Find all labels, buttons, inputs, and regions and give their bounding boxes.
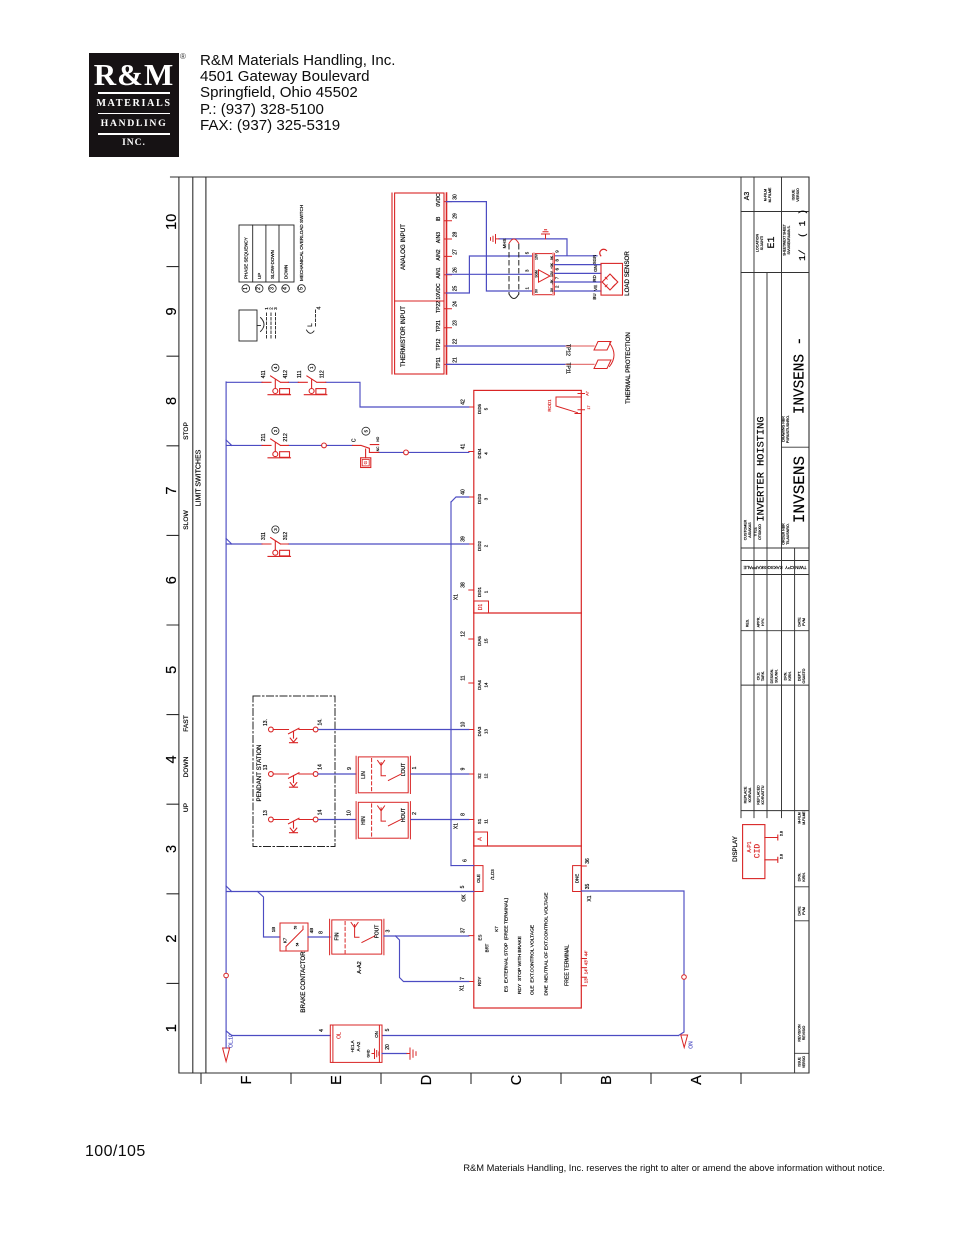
svg-text:39: 39 — [461, 536, 467, 542]
svg-text:CUSTOMER: CUSTOMER — [744, 519, 748, 540]
svg-text:3: 3 — [164, 845, 180, 853]
svg-text:3: 3 — [386, 929, 392, 932]
svg-text:NC: NC — [376, 446, 380, 451]
svg-text:1B: 1B — [271, 927, 276, 932]
transformer symbol — [239, 310, 276, 341]
svg-text:S1: S1 — [477, 818, 482, 824]
limit switch 111/112 — [298, 376, 327, 395]
svg-text:ORDER NBR: ORDER NBR — [782, 523, 786, 545]
svg-text:112: 112 — [320, 370, 326, 378]
svg-text:A: A — [689, 1075, 705, 1085]
svg-text:+3K: +3K — [550, 262, 554, 269]
relay contact ROD1 — [556, 394, 585, 414]
wire row 42 — [226, 382, 469, 407]
wire supply bus — [226, 382, 232, 1036]
svg-text:13: 13 — [484, 729, 489, 734]
svg-text:REPLACE: REPLACE — [744, 786, 748, 803]
svg-text:TP11: TP11 — [565, 363, 571, 375]
svg-text:10: 10 — [461, 722, 467, 728]
junction node — [404, 450, 409, 455]
svg-text:9: 9 — [347, 767, 353, 770]
svg-text:OSASTO: OSASTO — [802, 668, 806, 683]
svg-text:3: 3 — [273, 528, 278, 531]
svg-text:AIN1: AIN1 — [436, 267, 442, 278]
overload switch contact 5 — [353, 445, 379, 468]
svg-text:X1: X1 — [460, 985, 466, 991]
pendant button 13-14 row 10 — [269, 817, 319, 833]
wire row 10 — [318, 729, 469, 731]
svg-text:7: 7 — [555, 276, 560, 279]
svg-text:THERMAL PROTECTION: THERMAL PROTECTION — [625, 332, 632, 404]
svg-text:37: 37 — [461, 928, 467, 934]
svg-text:E1: E1 — [767, 236, 778, 248]
shield terminal symbol — [491, 235, 500, 244]
wire 10VDC to amp pin5 — [447, 256, 533, 293]
svg-text:5: 5 — [363, 429, 368, 432]
svg-text:10: 10 — [347, 810, 353, 816]
row ticks — [201, 1073, 741, 1084]
svg-text:1: 1 — [243, 287, 249, 290]
svg-text:K7: K7 — [494, 926, 499, 932]
analog input box — [392, 193, 447, 374]
svg-text:312: 312 — [283, 532, 289, 541]
wire to LIN — [318, 773, 356, 775]
svg-text:C: C — [352, 438, 358, 442]
column numbers 1-10 — [164, 214, 180, 1033]
svg-text:DID1: DID1 — [477, 586, 482, 597]
svg-text:ROD1: ROD1 — [547, 399, 552, 412]
svg-text:4: 4 — [317, 306, 323, 309]
svg-text:TP21: TP21 — [436, 320, 442, 332]
svg-text:TILAUSNRO.: TILAUSNRO. — [786, 523, 790, 545]
svg-text:DATE: DATE — [798, 617, 802, 627]
svg-text:BRT: BRT — [485, 943, 490, 952]
terminal stubs 21-30 — [444, 202, 452, 365]
svg-text:311: 311 — [261, 532, 267, 540]
svg-text:DRN.: DRN. — [784, 672, 788, 681]
svg-text:1: 1 — [412, 766, 418, 769]
svg-text:3: 3 — [269, 287, 275, 290]
svg-text:M-FILME: M-FILME — [802, 811, 806, 824]
sub box D1 — [474, 601, 489, 613]
limit switch 311/312 — [262, 538, 291, 557]
svg-text:CKD.: CKD. — [757, 672, 761, 681]
svg-text:+E1.A: +E1.A — [350, 1040, 355, 1052]
thermistor TP11 — [594, 360, 611, 369]
svg-text:23: 23 — [453, 320, 459, 326]
svg-text:REPLACED: REPLACED — [757, 785, 761, 805]
svg-text:SIVU/SEURAAVA S.: SIVU/SEURAAVA S. — [787, 225, 791, 254]
marker OL10 — [223, 1048, 230, 1062]
svg-text:DID2: DID2 — [477, 540, 482, 551]
svg-text:42: 42 — [461, 399, 467, 405]
svg-text:ASIAKAS: ASIAKAS — [748, 522, 752, 538]
svg-text:K7: K7 — [283, 937, 288, 943]
svg-text:DNE NEUTRAL OF EXT.CONTROL VO: DNE NEUTRAL OF EXT.CONTROL VOLTAGE — [544, 892, 550, 996]
svg-text:24: 24 — [453, 301, 459, 307]
svg-text:DATE: DATE — [798, 906, 802, 916]
svg-text:1: 1 — [484, 590, 489, 593]
svg-text:G: G — [363, 460, 368, 464]
svg-text:A-A2: A-A2 — [356, 1041, 361, 1051]
wire row 40 — [451, 497, 469, 502]
svg-text:M-FILM: M-FILM — [798, 812, 802, 823]
svg-text:X1: X1 — [454, 823, 460, 829]
svg-text:DID5: DID5 — [477, 403, 482, 414]
svg-text:14: 14 — [318, 764, 324, 770]
svg-text:41: 41 — [461, 444, 467, 450]
svg-text:LIMIT SWITCHES: LIMIT SWITCHES — [196, 449, 203, 506]
svg-text:53: 53 — [294, 926, 298, 930]
svg-text:2: 2 — [412, 812, 418, 815]
svg-text:14': 14' — [584, 968, 589, 974]
svg-text:13': 13' — [584, 977, 589, 983]
svg-text:DID4: DID4 — [477, 448, 482, 459]
svg-text:FREE TERMINAL: FREE TERMINAL — [565, 944, 571, 986]
svg-text:17: 17 — [587, 406, 591, 410]
svg-text:2: 2 — [256, 287, 262, 290]
svg-text:UP: UP — [257, 273, 262, 279]
amplifier SGM — [533, 254, 555, 295]
svg-text:MECHANICAL OVERLOAD SWITCH: MECHANICAL OVERLOAD SWITCH — [299, 205, 304, 281]
svg-text:14.: 14. — [318, 719, 324, 726]
svg-text:13: 13 — [263, 765, 269, 771]
pendant station box — [253, 696, 335, 847]
svg-text:36: 36 — [585, 858, 591, 864]
svg-text:LOCATION: LOCATION — [756, 234, 760, 253]
svg-text:5: 5 — [460, 885, 466, 888]
svg-text:27: 27 — [453, 249, 459, 255]
svg-text:KIRN.: KIRN. — [788, 671, 792, 681]
svg-text:NO: NO — [376, 436, 380, 441]
svg-text:8: 8 — [319, 931, 325, 934]
svg-text:VERSIO: VERSIO — [796, 188, 800, 202]
svg-text:APPR.: APPR. — [757, 617, 761, 628]
svg-text:DRN.: DRN. — [798, 873, 802, 882]
svg-text:A-A2: A-A2 — [357, 961, 363, 973]
svg-text:RES.: RES. — [746, 619, 750, 627]
svg-text:OLE EXT.CONTROL VOLTAGE: OLE EXT.CONTROL VOLTAGE — [530, 924, 536, 995]
wire row 39 — [226, 539, 469, 545]
svg-text:5: 5 — [525, 251, 530, 254]
column ticks — [167, 267, 179, 984]
svg-text:OL: OL — [337, 1032, 343, 1039]
title block grid — [741, 178, 809, 1073]
svg-text:DOWN: DOWN — [283, 265, 288, 279]
svg-text:22: 22 — [453, 339, 459, 345]
svg-text:-3K: -3K — [550, 279, 554, 285]
svg-text:1/ ( 1 ): 1/ ( 1 ) — [797, 209, 808, 261]
svg-text:RD: RD — [592, 275, 597, 281]
svg-text:HYV.: HYV. — [761, 618, 765, 626]
svg-text:ON: ON — [689, 1041, 695, 1049]
svg-text:AIN3: AIN3 — [436, 232, 442, 243]
svg-text:LIN: LIN — [361, 771, 367, 779]
svg-text:38: 38 — [461, 582, 467, 588]
svg-text:DID3: DID3 — [477, 493, 482, 504]
svg-text:4: 4 — [484, 452, 489, 455]
svg-text:SGM: SGM — [534, 270, 538, 278]
svg-text:RDY STOP WITH BRAKE: RDY STOP WITH BRAKE — [517, 935, 523, 994]
wire row 6 — [451, 865, 474, 867]
svg-text:INVSENS: INVSENS — [791, 456, 809, 523]
svg-text:28: 28 — [453, 232, 459, 238]
svg-text:10: 10 — [164, 214, 180, 230]
svg-text:VERSIO: VERSIO — [802, 1055, 806, 1068]
svg-text:PENDANT STATION: PENDANT STATION — [256, 744, 263, 801]
svg-text:SLOW-DOWN: SLOW-DOWN — [270, 250, 275, 279]
pin names — [436, 193, 442, 369]
svg-text:TWIN CPY KAKSOISKAPPALE: TWIN CPY KAKSOISKAPPALE — [743, 565, 806, 570]
svg-text:7: 7 — [164, 487, 180, 495]
svg-text:3: 3 — [484, 497, 489, 500]
svg-text:CID: CID — [753, 844, 762, 859]
svg-text:SGN: SGN — [592, 255, 597, 265]
terminal numbers left — [454, 399, 469, 991]
svg-text:2: 2 — [555, 285, 560, 288]
legend table — [239, 225, 294, 282]
svg-text:REVISION: REVISION — [798, 1024, 802, 1042]
svg-text:4: 4 — [273, 366, 278, 369]
svg-text:2: 2 — [484, 544, 489, 547]
svg-text:5: 5 — [385, 1028, 391, 1031]
svg-text:35: 35 — [585, 884, 591, 890]
svg-text:REVISIO: REVISIO — [802, 1026, 806, 1041]
svg-text:D.B: D.B — [780, 854, 784, 859]
svg-text:9: 9 — [461, 767, 467, 770]
svg-text:29: 29 — [453, 213, 459, 219]
svg-text:ES EXTERNAL STOP (FREE TERMI: ES EXTERNAL STOP (FREE TERMINAL) — [504, 897, 510, 992]
svg-text:20: 20 — [385, 1044, 391, 1050]
svg-text:7: 7 — [460, 977, 466, 980]
svg-text:5: 5 — [484, 407, 489, 410]
svg-text:HOUT: HOUT — [401, 808, 407, 822]
svg-text:PVM: PVM — [802, 618, 806, 626]
svg-text:3: 3 — [273, 307, 278, 310]
svg-text:10VDC: 10VDC — [436, 283, 442, 300]
pin labels inside box — [477, 403, 499, 985]
svg-text:TARK.: TARK. — [761, 671, 765, 681]
legend 5 MECHANICAL OVERLOAD SWITCH — [298, 285, 306, 293]
wire pin 20 to ground — [382, 1053, 407, 1055]
svg-text:BRAKE CONTACTOR: BRAKE CONTACTOR — [300, 951, 307, 1013]
wires amp to load sensor — [555, 265, 602, 291]
svg-text:GND: GND — [366, 1049, 370, 1057]
svg-text:ES: ES — [478, 935, 483, 941]
terminal numbers 21-30 — [453, 194, 459, 363]
svg-text:411: 411 — [261, 370, 267, 378]
svg-text:6: 6 — [164, 576, 180, 584]
wire shield MHS — [499, 239, 597, 256]
svg-text:M-FILM: M-FILM — [764, 189, 768, 201]
svg-text:3: 3 — [525, 269, 530, 272]
svg-text:54: 54 — [296, 943, 300, 947]
svg-text:DIA5: DIA5 — [477, 636, 482, 646]
terminal stubs left edge — [469, 407, 587, 986]
svg-text:11: 11 — [484, 819, 489, 824]
svg-text:26: 26 — [453, 267, 459, 273]
wire bottom row — [232, 1035, 679, 1037]
svg-text:DIA4: DIA4 — [477, 680, 482, 690]
svg-text:C: C — [509, 1075, 525, 1085]
svg-text:5: 5 — [164, 666, 180, 674]
svg-text:1: 1 — [309, 366, 314, 369]
svg-text:TP12: TP12 — [565, 344, 571, 356]
svg-text:KIRN.: KIRN. — [802, 872, 806, 882]
svg-text:8: 8 — [555, 259, 560, 262]
svg-text:211: 211 — [261, 433, 267, 441]
svg-text:212: 212 — [283, 433, 289, 442]
contactor aux K7 — [280, 923, 308, 951]
cell DNE — [573, 866, 582, 892]
svg-text:INVERTER HOISTING: INVERTER HOISTING — [756, 416, 768, 521]
svg-text:M-FILME: M-FILME — [768, 187, 772, 202]
svg-text:STOP: STOP — [183, 421, 190, 439]
wire K7 to FIN — [308, 936, 330, 938]
svg-text:SLOW: SLOW — [183, 510, 190, 530]
svg-text:VE: VE — [593, 285, 598, 291]
svg-text:412: 412 — [283, 370, 289, 379]
svg-text:8: 8 — [461, 813, 467, 816]
svg-text:FOUT: FOUT — [375, 925, 381, 939]
svg-text:5: 5 — [299, 287, 305, 290]
wire TP12 — [447, 345, 567, 347]
wire row DNE — [581, 891, 684, 1036]
svg-text:43': 43' — [584, 959, 589, 965]
svg-text:12: 12 — [484, 773, 489, 778]
svg-text:8: 8 — [164, 397, 180, 405]
svg-text:TP11: TP11 — [436, 357, 442, 369]
wire K7 branch — [258, 892, 281, 938]
svg-text:F: F — [239, 1075, 255, 1084]
svg-text:0VDC: 0VDC — [436, 193, 442, 207]
svg-text:SIJAINTI: SIJAINTI — [760, 236, 764, 250]
svg-text:ISSUE: ISSUE — [798, 1057, 802, 1067]
svg-text:X1: X1 — [454, 594, 460, 600]
wire TP11 — [447, 363, 567, 365]
svg-text:10V: 10V — [534, 253, 538, 260]
svg-text:THERMISTOR INPUT: THERMISTOR INPUT — [400, 306, 407, 367]
svg-text:DISPLAY: DISPLAY — [732, 836, 739, 862]
wire row 41 — [226, 440, 469, 452]
svg-text:BU: BU — [592, 293, 597, 299]
wire 0VDC to amp pin1 — [447, 202, 533, 291]
svg-text:A-P1: A-P1 — [747, 841, 753, 852]
svg-text:30: 30 — [453, 194, 459, 200]
svg-text:OLE: OLE — [476, 874, 481, 883]
svg-text:6: 6 — [463, 859, 469, 862]
svg-text:FAST: FAST — [183, 715, 190, 732]
svg-text:SHEET/NEXT SHEET: SHEET/NEXT SHEET — [783, 224, 787, 256]
svg-text:B: B — [599, 1075, 615, 1085]
thermistor bracket — [610, 343, 615, 367]
row letters A-F — [239, 1075, 705, 1085]
svg-text:ON: ON — [374, 1031, 379, 1038]
inverter unit box — [474, 390, 582, 1008]
svg-text:40: 40 — [461, 489, 467, 495]
svg-text:D1: D1 — [478, 604, 484, 611]
svg-text:4B: 4B — [309, 928, 314, 933]
radio link FIN/FOUT — [330, 919, 384, 955]
svg-text:DRAWING NBR: DRAWING NBR — [782, 416, 786, 442]
wire AIN1 to amp pin3 — [447, 273, 533, 275]
thermistor TP12 — [594, 342, 611, 351]
svg-text:9: 9 — [555, 250, 560, 253]
svg-text:IB: IB — [436, 216, 442, 221]
svg-text:2: 2 — [164, 935, 180, 943]
svg-text:PHASE SEQUENCY: PHASE SEQUENCY — [244, 237, 249, 279]
ground symbol top — [542, 230, 550, 239]
overload relay OL — [330, 1025, 382, 1062]
svg-text:E: E — [329, 1075, 345, 1085]
svg-text:4: 4 — [319, 1029, 325, 1032]
shield drain hook — [600, 249, 607, 256]
svg-text:TP22: TP22 — [436, 301, 442, 313]
svg-text:1: 1 — [525, 287, 530, 290]
svg-text:A: A — [478, 837, 484, 841]
svg-text:PIIRUSTUSNRO.: PIIRUSTUSNRO. — [786, 415, 790, 443]
wire branch RDY — [396, 936, 469, 982]
limit switch 211/212 — [262, 439, 291, 458]
load sensor — [601, 263, 623, 295]
svg-text:11: 11 — [461, 675, 467, 680]
svg-text:DIA3: DIA3 — [477, 726, 482, 736]
svg-text:10V: 10V — [550, 270, 554, 277]
svg-text:111: 111 — [297, 370, 303, 378]
svg-text:D.B: D.B — [780, 831, 784, 836]
junction node right — [682, 975, 687, 980]
svg-text:TP12: TP12 — [436, 338, 442, 350]
sub box A — [474, 832, 488, 846]
svg-text:ISSUE: ISSUE — [792, 189, 796, 200]
svg-text:PVM: PVM — [802, 907, 806, 915]
svg-text:DESIGN.: DESIGN. — [770, 669, 774, 684]
svg-text:DEPT.: DEPT. — [798, 671, 802, 681]
pendant button 13.-14. — [269, 727, 319, 743]
svg-text:TITLE: TITLE — [754, 527, 758, 537]
svg-text:LOAD SENSOR: LOAD SENSOR — [624, 251, 631, 296]
svg-text:GN: GN — [593, 265, 598, 272]
svg-text:6: 6 — [555, 267, 560, 270]
svg-text:12: 12 — [461, 631, 467, 637]
svg-text:MHS: MHS — [502, 239, 507, 249]
wire riser 40-6 — [450, 502, 452, 866]
svg-text:INVSENS -: INVSENS - — [793, 337, 809, 414]
svg-text:SUUNN.: SUUNN. — [775, 669, 779, 683]
svg-text:AIN2: AIN2 — [436, 249, 442, 260]
svg-text:HIN: HIN — [361, 816, 367, 825]
svg-text:4: 4 — [283, 287, 289, 290]
svg-text:9: 9 — [164, 307, 180, 315]
svg-text:S2: S2 — [477, 773, 482, 779]
svg-text:L: L — [307, 323, 314, 327]
limit switch 411/412 — [262, 376, 291, 395]
svg-text:A3: A3 — [744, 192, 751, 201]
svg-text:DOWN: DOWN — [183, 756, 190, 777]
pendant button 13-14 row 9 — [269, 772, 319, 788]
svg-text:21: 21 — [453, 357, 459, 363]
svg-text:DNE: DNE — [575, 874, 580, 883]
svg-text:KORVATTU: KORVATTU — [761, 785, 765, 804]
svg-text:RDY: RDY — [477, 977, 482, 986]
radio link LIN/LOUT — [356, 756, 410, 793]
wire row 37 ES — [384, 935, 469, 937]
svg-text:D: D — [419, 1075, 435, 1085]
svg-text:OK: OK — [462, 894, 468, 902]
wire row 8 — [411, 819, 469, 821]
ground symbol pin 20 — [407, 1048, 416, 1059]
junction node left — [224, 973, 229, 978]
